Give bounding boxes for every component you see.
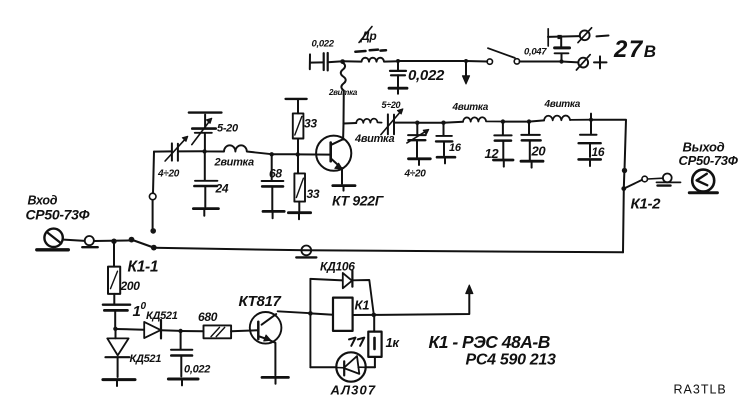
- wire left branch: [309, 279, 311, 367]
- wire base: [298, 153, 331, 155]
- wire: [94, 239, 131, 242]
- inductor 2 vitka vertical (collector feed): [341, 63, 346, 140]
- svg-text:0,022: 0,022: [312, 39, 335, 50]
- svg-text:1к: 1к: [386, 335, 401, 350]
- capacitor C 0,022 bypass: [397, 61, 399, 70]
- ground: [494, 159, 514, 162]
- junction: [113, 327, 117, 331]
- junction: [589, 118, 593, 122]
- ground emitter: [333, 184, 355, 187]
- net arrow down (to relay supply): [465, 61, 467, 78]
- capacitor C 24: [204, 151, 206, 179]
- inductor 4 vitka no.2: [463, 117, 503, 121]
- LED emission arrows: [349, 338, 356, 346]
- wire collector branch: [343, 122, 356, 125]
- capacitor C 20: [528, 122, 530, 135]
- junction: [527, 119, 531, 123]
- diode KD106 flyback: [310, 279, 342, 281]
- capacitor C 12: [502, 122, 504, 135]
- junction: [396, 59, 400, 63]
- svg-text:680: 680: [198, 310, 218, 324]
- ground: [579, 158, 601, 161]
- junction K1-2 fixed contact: [622, 168, 627, 173]
- resistor 680: [181, 330, 204, 332]
- svg-text:2витка: 2витка: [214, 157, 254, 169]
- capacitor C 1,0: [103, 304, 130, 306]
- svg-text:33: 33: [304, 117, 317, 131]
- ground: [168, 378, 198, 381]
- junction: [501, 119, 505, 123]
- svg-text:27В: 27В: [613, 36, 657, 63]
- svg-text:12: 12: [485, 146, 500, 161]
- inductor 4 vitka no.1: [356, 119, 381, 123]
- junction: [372, 313, 377, 318]
- connector contact output: [663, 174, 672, 183]
- svg-text:К1-1: К1-1: [128, 259, 159, 276]
- ground: [262, 376, 288, 379]
- svg-text:16: 16: [592, 145, 605, 159]
- wire: [310, 313, 333, 314]
- svg-text:5-20: 5-20: [217, 123, 239, 135]
- svg-text:КД106: КД106: [320, 260, 355, 274]
- ground: [389, 87, 407, 90]
- wire: [466, 60, 487, 63]
- svg-text:СР50-73Ф: СР50-73Ф: [26, 207, 90, 223]
- svg-text:Вход: Вход: [28, 194, 58, 208]
- svg-text:4÷20: 4÷20: [404, 169, 427, 180]
- ground: [263, 210, 284, 213]
- capacitor C 16 no.2: [590, 120, 592, 134]
- wire collector KT817: [278, 311, 311, 313]
- connector contact: [149, 193, 156, 200]
- wire: [154, 150, 172, 152]
- svg-text:4витка: 4витка: [452, 102, 489, 113]
- switch K1-1 lever: [129, 237, 135, 243]
- wire stub top-left: [309, 54, 311, 69]
- wire B+: [398, 60, 466, 62]
- junction: [270, 152, 274, 156]
- resistor 33 upper: [293, 113, 304, 138]
- svg-text:2витка: 2витка: [328, 88, 358, 97]
- svg-text:КД521: КД521: [130, 353, 162, 365]
- ground: [193, 207, 218, 210]
- svg-text:КД521: КД521: [146, 310, 178, 322]
- wire supply with net arrow up: [374, 291, 470, 315]
- svg-text:АЛ307: АЛ307: [330, 383, 377, 398]
- wire: [444, 122, 464, 123]
- connector output CP50-73F: [692, 170, 714, 192]
- svg-text:20: 20: [531, 144, 547, 159]
- variable capacitor 5-20 series (PA out): [387, 114, 389, 134]
- wire: [417, 122, 443, 124]
- wire: [529, 120, 544, 121]
- wire: [520, 61, 562, 63]
- wire: [272, 153, 298, 155]
- ground: [409, 157, 431, 160]
- capacitor C 0,047: [561, 54, 563, 62]
- svg-text:Др: Др: [360, 29, 376, 43]
- wire to K1-2: [591, 120, 626, 170]
- inductor 4 vitka no.3: [544, 116, 591, 121]
- svg-text:РС4 590 213: РС4 590 213: [466, 352, 557, 369]
- svg-text:5÷20: 5÷20: [382, 100, 401, 110]
- LED AL307: [336, 352, 365, 381]
- capacitor C 68: [271, 154, 273, 180]
- connector contact input: [85, 236, 94, 245]
- node collector choke top: [340, 59, 345, 64]
- svg-text:0,022: 0,022: [408, 67, 445, 84]
- ground: [103, 378, 135, 381]
- choke Dr core dashes: [355, 50, 365, 53]
- wire bypass vertical: [622, 189, 625, 253]
- switch S lever: [488, 48, 515, 58]
- wire to output: [647, 177, 663, 180]
- svg-text:КТ817: КТ817: [239, 293, 282, 310]
- switch S contact left: [487, 59, 492, 64]
- svg-text:КТ 922Г: КТ 922Г: [332, 193, 385, 209]
- resistor 1k: [373, 315, 375, 332]
- transistor KT922: [316, 136, 351, 171]
- wire from tuner down to K1-1: [153, 152, 154, 194]
- svg-text:200: 200: [120, 279, 141, 293]
- variable capacitor 5-20 trimmer: [204, 133, 206, 151]
- svg-text:К1: К1: [355, 298, 370, 313]
- svg-text:0,047: 0,047: [524, 47, 547, 58]
- choke Dr winding: [343, 58, 398, 62]
- junction: [296, 152, 300, 156]
- junction: [441, 121, 445, 125]
- wire: [503, 121, 529, 123]
- diode KD521 series: [115, 328, 143, 331]
- junction: [202, 149, 206, 153]
- svg-text:4витка: 4витка: [544, 99, 581, 110]
- svg-text:0,022: 0,022: [184, 364, 210, 376]
- junction K1-1 upper contact: [150, 228, 156, 234]
- svg-text:К1-2: К1-2: [631, 196, 662, 213]
- wire: [64, 240, 85, 241]
- junction: [308, 311, 313, 316]
- diode KD521 shunt: [115, 329, 117, 338]
- capacitor C 0,022 coupling: [323, 53, 325, 70]
- terminal plus 27V: [578, 58, 588, 68]
- svg-text:4витка: 4витка: [354, 133, 394, 145]
- wire bypass long: [154, 248, 623, 253]
- relay K1 coil: [333, 298, 353, 331]
- switch S contact right: [514, 59, 519, 64]
- wire top to minus terminal: [548, 35, 579, 38]
- svg-text:К1 - РЭС 48А-В: К1 - РЭС 48А-В: [429, 332, 550, 352]
- inductor 2 vitka: [205, 145, 272, 154]
- junction: [559, 59, 563, 63]
- resistor 33 lower: [297, 154, 299, 173]
- capacitor C 16 no.1: [443, 123, 445, 136]
- svg-text:RA3TLB: RA3TLB: [674, 383, 727, 397]
- variable capacitor 4-20 shunt: [416, 123, 418, 135]
- connector input CP50-73F: [44, 229, 62, 247]
- svg-text:33: 33: [307, 187, 320, 201]
- junction: [464, 59, 468, 63]
- resistor 200: [113, 241, 115, 266]
- ground: [288, 211, 310, 214]
- svg-text:4÷20: 4÷20: [157, 169, 180, 180]
- svg-text:16: 16: [449, 142, 462, 154]
- junction: [111, 239, 116, 244]
- svg-text:10: 10: [133, 301, 147, 320]
- ground: [437, 156, 455, 159]
- transistor KT817: [250, 312, 282, 344]
- label Dr slash: [359, 27, 372, 43]
- variable capacitor 4-20 series: [171, 143, 173, 160]
- junction: [415, 121, 419, 125]
- connector contact bypass: [301, 246, 311, 256]
- svg-text:68: 68: [269, 167, 282, 181]
- ground: [521, 160, 543, 163]
- capacitor C 0,022 agc: [180, 331, 182, 349]
- junction: [178, 329, 182, 333]
- svg-text:СР50-73Ф: СР50-73Ф: [679, 153, 739, 168]
- switch K1-2 lever: [621, 186, 626, 191]
- terminal minus 27V: [580, 30, 590, 40]
- svg-text:24: 24: [215, 182, 229, 196]
